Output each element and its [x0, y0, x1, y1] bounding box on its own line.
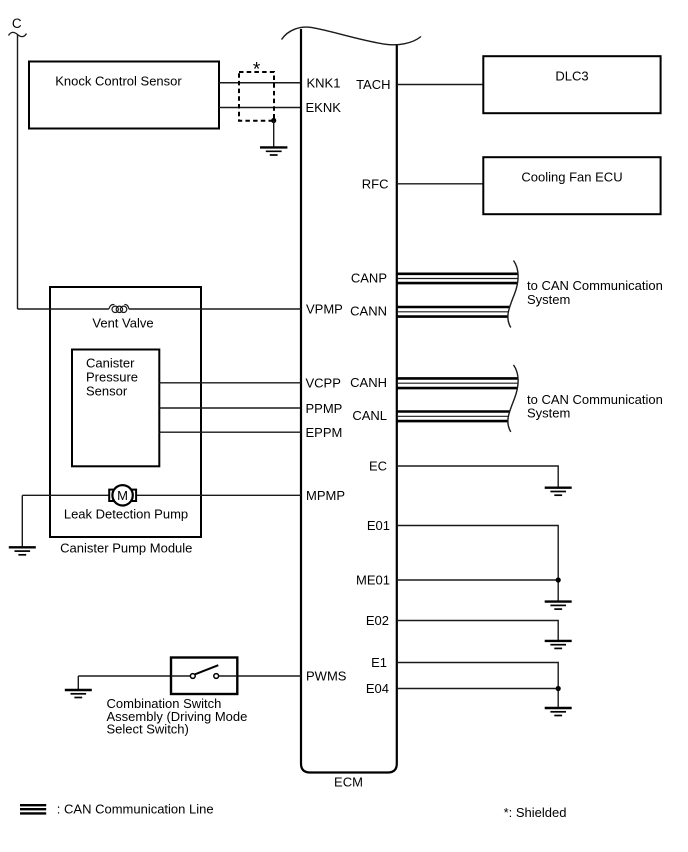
CAN bus CANL [397, 412, 510, 422]
svg-text:KNK1: KNK1 [307, 76, 341, 91]
wire VCPP [159, 382, 301, 384]
ground G6 [545, 641, 572, 649]
svg-text:Cooling Fan ECU: Cooling Fan ECU [521, 169, 622, 184]
svg-text:*: * [253, 59, 261, 80]
svg-text:E01: E01 [367, 518, 390, 533]
wire C rail [17, 35, 19, 309]
break arc 2 [508, 365, 518, 432]
shield box * [239, 59, 274, 120]
wire E02 [397, 621, 558, 641]
svg-text:ECM: ECM [334, 774, 363, 789]
wire KNK1 [219, 82, 301, 84]
svg-text:DLC3: DLC3 [555, 69, 588, 84]
ground G5 [545, 602, 572, 610]
CAN bus CANN [397, 307, 510, 317]
wire E04 [397, 689, 558, 708]
wire shield to ground [273, 121, 275, 148]
svg-text:E04: E04 [366, 681, 389, 696]
legend CAN Communication Line [20, 802, 214, 817]
svg-text:Select Switch): Select Switch) [107, 722, 189, 737]
wire PPMP [159, 407, 301, 409]
svg-text:PWMS: PWMS [306, 669, 347, 684]
wire TACH [397, 84, 484, 86]
svg-text:VPMP: VPMP [306, 301, 343, 316]
svg-text:C: C [12, 16, 22, 31]
svg-text:EPPM: EPPM [306, 425, 343, 440]
inductor Vent Valve [92, 305, 153, 331]
svg-text:PPMP: PPMP [306, 401, 343, 416]
junction ME01 [556, 577, 561, 582]
node C [9, 16, 27, 37]
junction E04 [556, 686, 561, 691]
svg-text:TACH: TACH [356, 77, 390, 92]
svg-text:Sensor: Sensor [86, 384, 128, 399]
ground G4 [545, 488, 572, 496]
break arc 1 [508, 261, 518, 328]
switch Combination Switch Assembly [107, 658, 248, 737]
wire E1 [397, 663, 558, 689]
ground G3 [65, 690, 92, 698]
Cooling Fan ECU box [483, 157, 660, 214]
Canister Pump Module box [50, 287, 201, 555]
ECM body [282, 27, 422, 772]
wire ME01 [397, 580, 558, 602]
CAN bus CANH [397, 378, 518, 388]
svg-text:: CAN Communication Line: : CAN Communication Line [57, 802, 214, 817]
svg-text:System: System [527, 406, 570, 421]
svg-text:EKNK: EKNK [306, 100, 342, 115]
svg-text:Vent Valve: Vent Valve [92, 315, 153, 330]
svg-text:ME01: ME01 [356, 573, 390, 588]
ground G2 [9, 547, 36, 555]
svg-text:Canister Pump Module: Canister Pump Module [60, 540, 192, 555]
wire MPMP [22, 495, 301, 547]
svg-text:CANL: CANL [352, 408, 387, 423]
svg-text:CANH: CANH [350, 375, 387, 390]
text to CAN Communication System 1 [527, 278, 663, 307]
svg-text:CANP: CANP [351, 270, 387, 285]
svg-text:System: System [527, 292, 570, 307]
svg-text:*: Shielded: *: Shielded [504, 805, 567, 820]
text to CAN Communication System 2 [527, 392, 663, 421]
svg-text:Pressure: Pressure [86, 370, 138, 385]
wire EKNK [219, 107, 301, 109]
svg-text:E1: E1 [371, 655, 387, 670]
wire VPMP [18, 308, 302, 310]
svg-text:E02: E02 [366, 613, 389, 628]
svg-text:RFC: RFC [362, 176, 389, 191]
junction shield ground [271, 118, 276, 123]
wire PWMS [237, 675, 301, 677]
wire RFC [397, 183, 484, 185]
motor Leak Detection Pump [64, 485, 188, 521]
wire EPPM [159, 431, 301, 433]
ground G1 [260, 147, 287, 155]
ground G7 [545, 708, 572, 716]
svg-text:EC: EC [369, 459, 387, 474]
svg-text:Knock Control Sensor: Knock Control Sensor [55, 74, 182, 89]
Knock Control Sensor box [29, 62, 219, 129]
wire EC [397, 466, 558, 488]
svg-text:Canister: Canister [86, 355, 135, 370]
svg-text:M: M [117, 488, 128, 503]
svg-text:Leak Detection Pump: Leak Detection Pump [64, 507, 188, 522]
wire switch to ground [78, 676, 171, 690]
DLC3 box [483, 56, 660, 113]
CAN bus CANP [397, 274, 518, 283]
wire E01 [397, 526, 558, 581]
svg-text:MPMP: MPMP [306, 488, 345, 503]
svg-text:CANN: CANN [350, 304, 387, 319]
Canister Pressure Sensor box [72, 350, 159, 467]
svg-text:VCPP: VCPP [306, 375, 341, 390]
